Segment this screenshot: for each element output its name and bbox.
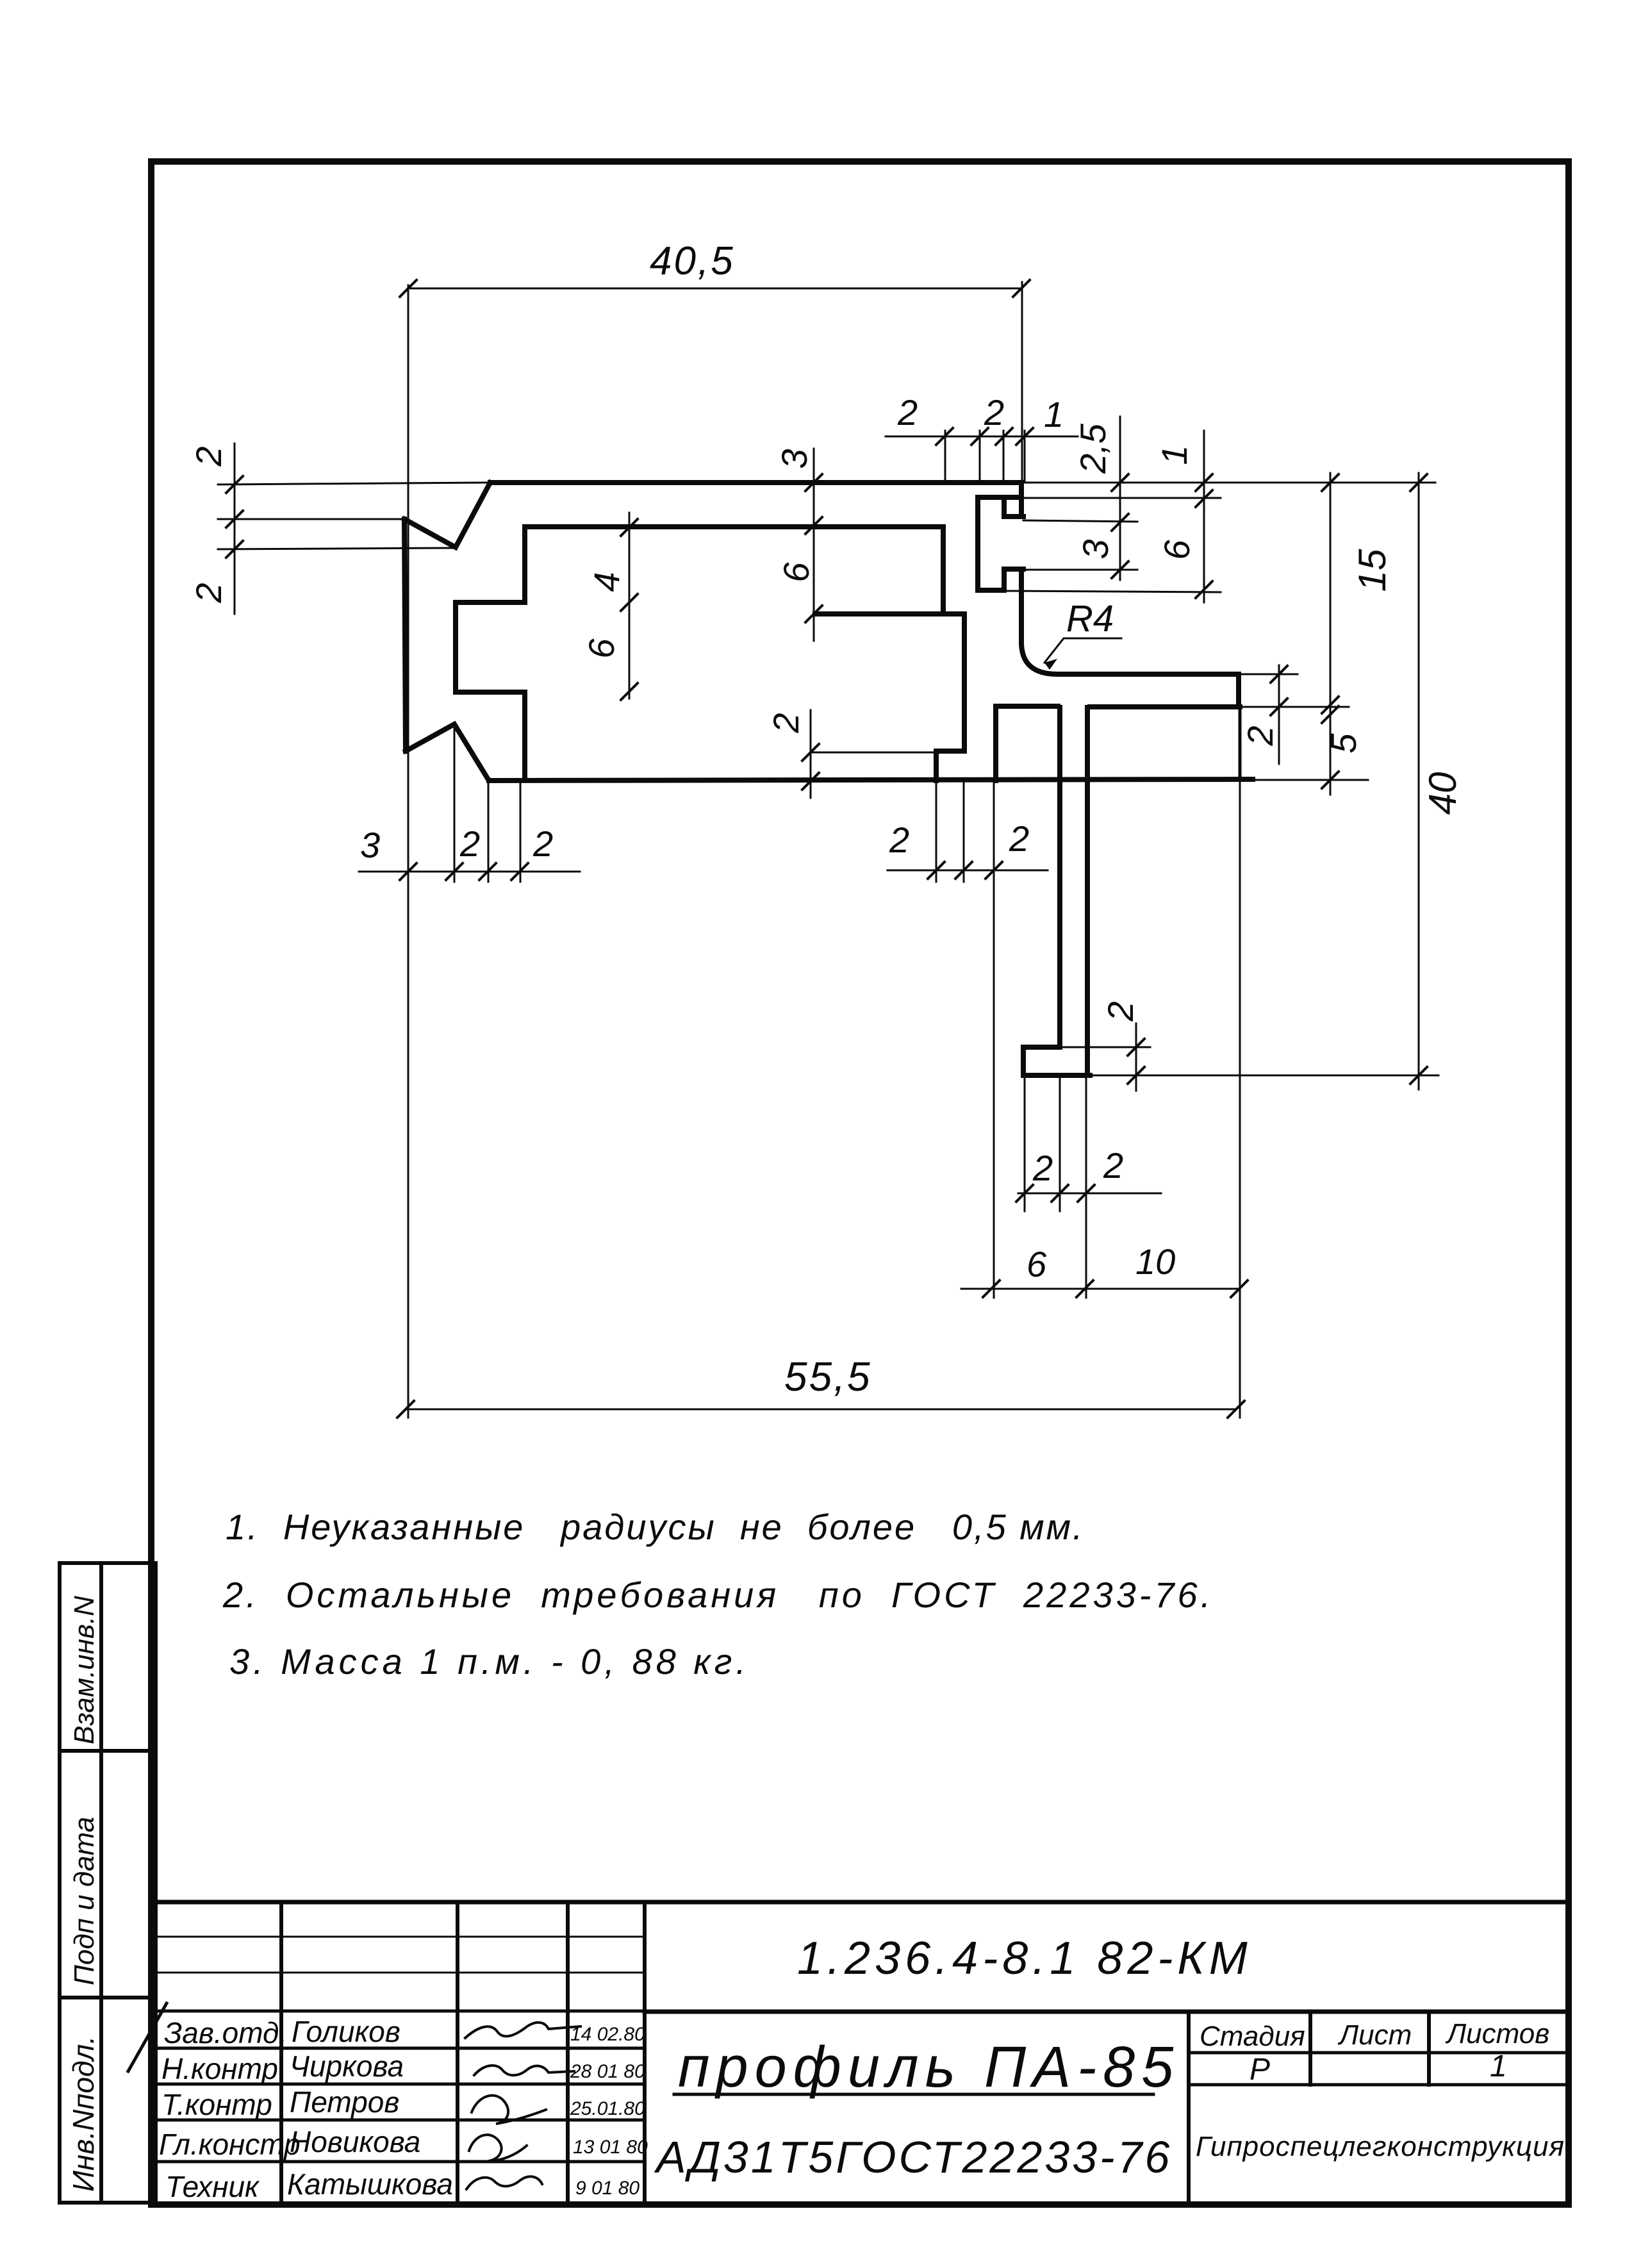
dimension foot height 2 [1135,1023,1137,1091]
dimension 40,5 [408,288,1021,290]
svg-text:2: 2 [459,824,480,864]
svg-text:2: 2 [1032,1148,1053,1188]
svg-text:2: 2 [1240,725,1280,746]
ext: long vertical at x=637 [408,285,409,1418]
ext: bottom start down [488,783,490,882]
ext: left-end top point to the left [218,518,404,520]
ext: flange right end down [1239,709,1241,1418]
profile: top surface [404,483,1253,1075]
profile: T-slot outer wall [975,497,980,590]
ext: chamber wall down [963,783,965,882]
title block outer top line [156,1900,1569,1905]
dimension flange thickness 2 [1278,665,1280,764]
underline of title [674,2093,1153,2096]
svg-text:Лист: Лист [1337,2019,1412,2051]
profile: inner wall right of chamber [941,527,946,613]
svg-text:Инв.Nподл.: Инв.Nподл. [67,2036,100,2192]
svg-text:1: 1 [1490,2049,1507,2083]
svg-text:Гл.констр: Гл.констр [159,2128,301,2161]
svg-text:Листов: Листов [1445,2018,1549,2049]
ext: profile bottom right [1254,779,1368,781]
svg-text:Подп и дата: Подп и дата [69,1817,100,1985]
profile: middle flange right cap [1236,674,1241,707]
profile: left edge [404,519,406,751]
left stamp column box [60,1563,156,2203]
svg-text:профиль ПА-85: профиль ПА-85 [678,2035,1180,2099]
title block column verticals [281,1902,645,2203]
frame border [151,161,1569,2205]
ext: bottom plate inner surface left of step [811,752,934,754]
profile: foot [1023,1047,1090,1075]
ext: slot outer wall up [979,431,981,483]
profile: bottom plate right step [936,751,964,781]
svg-text:Голиков: Голиков [292,2015,400,2048]
ext: wall 1472 up [944,431,946,482]
signature squiggle row1 [465,2023,581,2038]
profile: stem left wall [1057,708,1062,1047]
ext: foot bottom right short [1092,1075,1150,1077]
svg-text:5: 5 [1323,733,1364,754]
ext: left notch vertex to the left [218,548,456,549]
profile: T-slot upper tooth [1004,497,1023,517]
svg-text:3: 3 [1075,539,1116,559]
ext: stem left wall down [1059,1078,1061,1211]
title block big cell divider under doc number [645,2010,1569,2014]
dimension 15 and 5 column [1330,473,1332,795]
title block right section row lines [1189,2053,1569,2085]
svg-text:Зав.отд.: Зав.отд. [164,2016,287,2049]
svg-text:1.236.4-8.1 82-КМ: 1.236.4-8.1 82-КМ [797,1933,1252,1984]
svg-text:Чиркова: Чиркова [290,2049,404,2083]
title block upper thin rows [156,1937,645,1973]
ext: top surface to the left [218,483,490,484]
profile: T-slot lower lip [1004,569,1023,590]
signature squiggle row3 [472,2096,546,2124]
dimension 55,5 [406,1409,1236,1411]
profile: top-left notch [404,483,490,547]
profile: top plate inner surface [525,524,943,529]
svg-text:2: 2 [1100,1001,1141,1022]
svg-text:3: 3 [774,449,814,468]
svg-text:2: 2 [1103,1145,1123,1186]
svg-text:Новикова: Новикова [290,2125,420,2158]
svg-text:2: 2 [188,446,229,467]
ext: foot left down [1024,1078,1026,1211]
svg-text:40: 40 [1421,772,1464,815]
ext: slot lip top right [1023,569,1137,571]
dimension 6 / 10 [961,1288,1239,1290]
signature squiggle row4 [469,2135,527,2161]
svg-text:2: 2 [889,820,909,860]
ext: top surface to the right [1021,482,1435,484]
profile: T-slot inner surface [978,495,1021,500]
title block right section verticals [1189,2012,1429,2203]
svg-text:15: 15 [1351,549,1394,592]
ext: slot bottom right [1004,591,1221,592]
signature squiggle row2 [474,2065,574,2075]
dimension bottom-left 3 / 2 / 2 [359,871,580,873]
ext: middle flange top right [1241,674,1298,675]
profile: stem right wall [1085,708,1090,1075]
profile: inner wall with left tab [456,527,525,779]
svg-text:R4: R4 [1066,598,1114,640]
profile: lower flange right cap [1239,708,1242,779]
svg-text:40,5: 40,5 [650,239,735,283]
svg-text:10: 10 [1135,1241,1175,1282]
ext: slot tooth bottom right [1023,520,1137,522]
svg-text:2. Остальные требования по: 2. Остальные требования по ГОСТ 22233-76… [222,1575,1214,1615]
ext: foot top right [1062,1047,1150,1048]
title block signature row lines [156,2011,645,2162]
dimension bottom plate thickness 2 [810,710,812,798]
svg-text:АД31Т5ГОСТ22233-76: АД31Т5ГОСТ22233-76 [654,2132,1172,2182]
dimension 40 [1418,473,1420,1089]
svg-text:Р: Р [1250,2053,1270,2087]
profile: web with R4 fillet into middle flange [1021,569,1239,674]
svg-text:2: 2 [532,824,553,864]
svg-text:6: 6 [776,562,816,583]
dimension 3 / 6 middle column [813,449,815,641]
svg-text:Гипроспецлегконструкция: Гипроспецлегконструкция [1196,2131,1565,2162]
dimension top 2 / 2 / 1 [886,436,1078,438]
svg-text:Н.контр.: Н.контр. [161,2052,286,2085]
svg-text:2,5: 2,5 [1073,423,1113,474]
svg-text:25.01.80: 25.01.80 [570,2098,645,2119]
svg-text:Катышкова: Катышкова [287,2167,453,2201]
svg-text:2: 2 [766,713,806,733]
svg-text:1: 1 [1154,445,1194,465]
profile: bottom surface [489,779,1253,781]
dimension center 2 / 2 [887,870,1048,872]
svg-text:Т.контр: Т.контр [161,2088,272,2121]
svg-text:Стадия: Стадия [1200,2021,1305,2052]
svg-text:1: 1 [1044,394,1064,435]
svg-text:28 01 80: 28 01 80 [570,2061,645,2082]
svg-text:3: 3 [360,825,380,865]
profile: channel left wall [993,706,998,781]
svg-text:2: 2 [188,583,229,603]
extension lines (thin) [218,282,1439,1418]
svg-text:Взам.инв.N: Взам.инв.N [69,1596,100,1744]
ext: step corner down [936,783,937,882]
profile: chamber right wall [962,614,967,751]
dimension 2,5 / 3 column [1119,417,1121,580]
ext: foot bottom to the 40 dim [1092,1075,1439,1077]
profile: middle flange bottom left segment [996,704,1058,709]
profile: web right of slot [1019,483,1024,517]
svg-text:13 01 80: 13 01 80 [573,2137,648,2158]
title block bottom line (frame bottom) [151,2202,1569,2208]
svg-text:1. Неуказанные радиусы не: 1. Неуказанные радиусы не более 0,5 мм. [226,1507,1085,1547]
ext: plate underside right [1021,497,1221,499]
svg-text:6: 6 [1157,540,1197,560]
svg-text:Петров: Петров [290,2085,399,2119]
svg-text:2: 2 [1009,818,1029,859]
ext: web up to 40,5 dim [1021,282,1023,481]
ext: channel left wall down [993,783,995,1298]
dimension left 2 / 2 [234,443,236,614]
svg-text:Техник: Техник [165,2170,260,2203]
signature squiggle row5 [466,2176,542,2189]
ext: stem right wall down [1085,1078,1087,1298]
profile: chamber top edge [815,611,964,617]
svg-text:55,5: 55,5 [784,1353,872,1400]
R4 leader and label [1044,638,1121,663]
dimension 4 / 6 tab column [629,513,631,699]
ext: notch vertex down [454,727,456,882]
svg-text:6: 6 [581,638,622,659]
ext: web up [1024,431,1026,482]
svg-text:3. Масса 1 п.м. - 0, 88 кг.: 3. Масса 1 п.м. - 0, 88 кг. [229,1641,750,1682]
ext: slot tooth up [1003,431,1005,483]
corner slash over stamp [128,2003,167,2071]
svg-text:2: 2 [984,392,1004,433]
svg-text:6: 6 [1027,1244,1047,1284]
svg-text:2: 2 [897,392,918,433]
ext: middle flange bottom right [1241,706,1349,708]
svg-text:4: 4 [586,572,627,592]
dimension foot 2 / 2 [1018,1193,1161,1195]
ext: step down [520,783,522,882]
profile: middle flange bottom right segment [1090,704,1240,709]
svg-text:9 01 80: 9 01 80 [575,2178,639,2199]
profile: bottom-left notch [406,724,489,781]
profile: T-slot bottom [978,588,1004,593]
dimension 1 / 6 right column [1203,431,1205,602]
